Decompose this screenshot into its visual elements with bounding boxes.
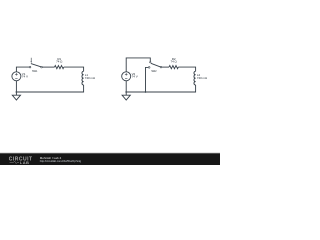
svg-text:74 Ω: 74 Ω [56, 60, 63, 64]
svg-text:74 Ω: 74 Ω [170, 60, 177, 64]
svg-text:SW2: SW2 [151, 69, 157, 73]
svg-text:http://circuitlab.com/c6w55uz6: http://circuitlab.com/c6w55uz6p7s4g [40, 159, 82, 163]
svg-text:740 mH: 740 mH [197, 76, 207, 80]
svg-text:LAB: LAB [20, 160, 30, 165]
svg-text:SW1: SW1 [32, 69, 38, 73]
svg-text:740 mH: 740 mH [85, 76, 95, 80]
svg-text:74 V: 74 V [132, 75, 138, 79]
svg-text:74 V: 74 V [22, 75, 28, 79]
